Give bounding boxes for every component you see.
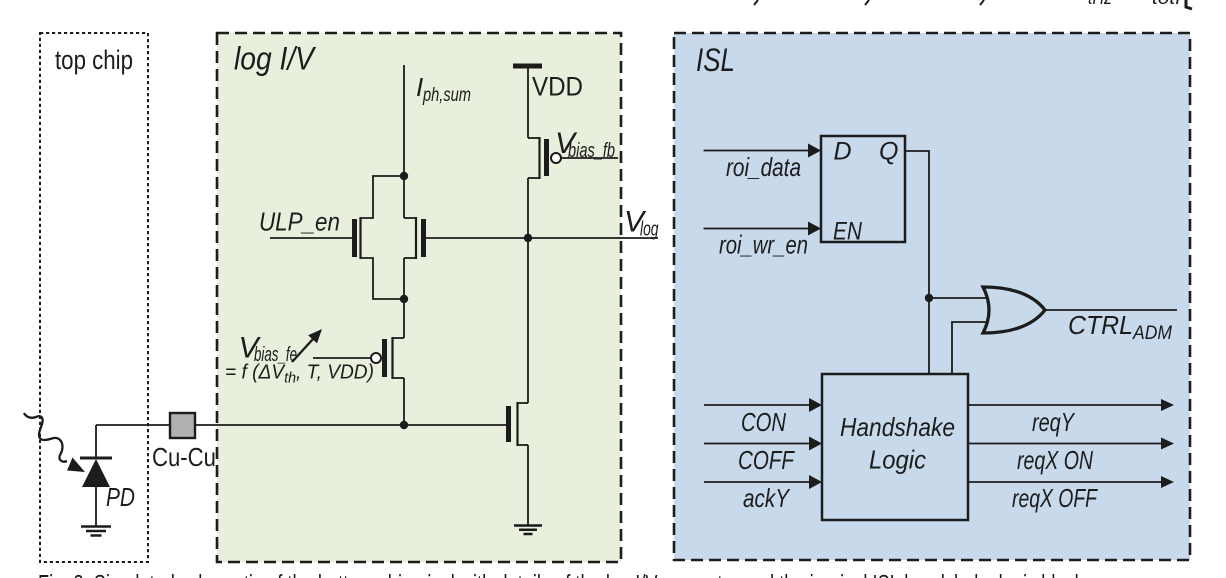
- svg-text:bias_fb: bias_fb: [568, 140, 615, 162]
- svg-text:Cu-Cu: Cu-Cu: [152, 442, 216, 472]
- svg-text:D: D: [834, 138, 852, 166]
- svg-text:tHz: tHz: [1088, 0, 1112, 9]
- svg-text:roi_wr_en: roi_wr_en: [719, 230, 808, 260]
- svg-text:roi_data: roi_data: [726, 152, 801, 182]
- svg-text:ISL: ISL: [696, 42, 735, 78]
- svg-text:reqX ON: reqX ON: [1017, 445, 1093, 475]
- svg-text:top chip: top chip: [55, 45, 133, 75]
- svg-text:totf: totf: [1152, 0, 1183, 9]
- svg-text:ph,sum: ph,sum: [422, 85, 471, 106]
- svg-text:CON: CON: [741, 407, 786, 437]
- svg-text:Handshake: Handshake: [840, 412, 955, 442]
- svg-text:EN: EN: [833, 218, 863, 246]
- svg-text:CTRL: CTRL: [1068, 310, 1133, 340]
- svg-text:PD: PD: [106, 482, 135, 512]
- svg-text:reqY: reqY: [1032, 407, 1075, 437]
- svg-text:Fig. 3. Simulated schematic o: Fig. 3. Simulated schematic of the botto…: [38, 569, 1098, 578]
- svg-text:ULP_en: ULP_en: [259, 207, 340, 237]
- svg-text:reqX OFF: reqX OFF: [1012, 483, 1099, 513]
- svg-text:COFF: COFF: [738, 445, 796, 475]
- svg-text:log I/V: log I/V: [234, 41, 316, 77]
- svg-text:log: log: [640, 219, 659, 241]
- svg-text:= f (ΔVth, T, VDD): = f (ΔVth, T, VDD): [225, 362, 374, 387]
- svg-text:VDD: VDD: [532, 72, 583, 102]
- svg-text:Logic: Logic: [869, 445, 926, 475]
- svg-text:Q: Q: [879, 138, 898, 166]
- svg-text:ackY: ackY: [743, 483, 790, 513]
- svg-text:ADM: ADM: [1132, 323, 1172, 344]
